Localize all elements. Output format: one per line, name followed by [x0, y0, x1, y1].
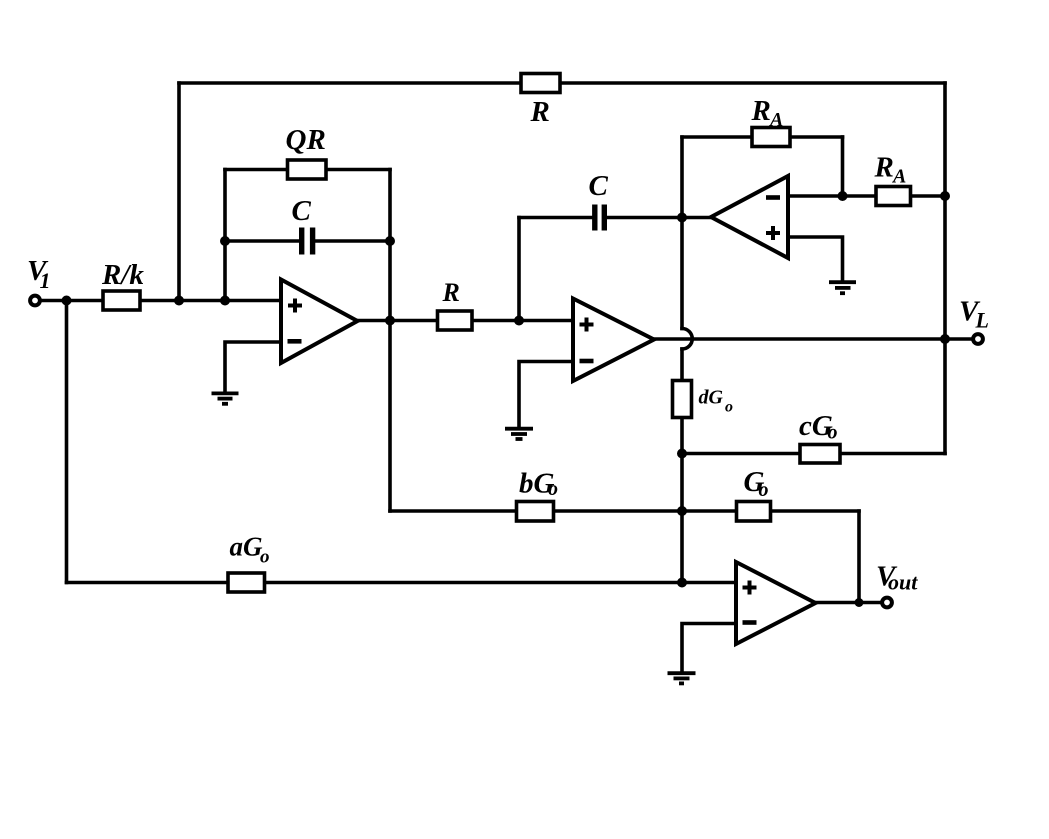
node C2/R junction: [514, 316, 524, 326]
resistor R (top feedback): [521, 74, 560, 93]
wire mid vertical to dGo: [680, 349, 684, 381]
resistor QR: [288, 160, 327, 179]
wire C2 left vertical: [517, 218, 521, 321]
wire U4 inverting input to ground: [682, 624, 736, 672]
svg-text:o: o: [725, 399, 733, 416]
svg-text:out: out: [888, 570, 918, 595]
svg-text:R/k: R/k: [101, 259, 144, 291]
capacitor C1 plates: [302, 228, 313, 255]
label VL: [959, 296, 989, 333]
node bGo junction: [677, 506, 687, 516]
terminal Vout: [882, 598, 892, 608]
op-amp U4: [736, 562, 816, 644]
wire aGo horizontal to U4 + input: [67, 581, 737, 585]
node RA junction: [838, 191, 848, 201]
wire QR horizontal: [225, 168, 390, 172]
wire U1 inverting input to ground: [225, 342, 281, 392]
svg-text:C: C: [589, 170, 609, 202]
svg-text:L: L: [975, 308, 989, 333]
resistor Go: [737, 502, 771, 522]
node C1 left junction: [220, 236, 230, 246]
resistor bGo: [517, 502, 554, 522]
resistor R (mid): [438, 311, 473, 330]
wire VL stub to terminal: [945, 337, 972, 341]
svg-text:dG: dG: [699, 387, 724, 409]
label Go: [744, 466, 769, 501]
svg-text:C: C: [292, 195, 312, 227]
wire top feedback left vertical: [177, 83, 181, 301]
terminal V1: [30, 296, 40, 306]
node aGo junction: [677, 578, 687, 588]
ground G4 (op-amp U4): [668, 673, 696, 683]
op-amp U2: [573, 299, 654, 382]
wire RA1 right vertical: [841, 137, 845, 196]
wire Go right vertical to U4 output: [857, 511, 861, 603]
label RA1: [751, 95, 784, 131]
wire C2 right segment to U3 tip: [607, 216, 711, 220]
label dGo: [699, 387, 734, 416]
wire hop over VL line: [682, 329, 692, 350]
node Vout junction: [855, 598, 864, 607]
wire C2 left segment: [519, 216, 592, 220]
node U1 output junction: [385, 316, 395, 326]
svg-text:R: R: [751, 95, 771, 127]
svg-text:o: o: [828, 422, 838, 444]
resistor aGo: [228, 573, 265, 592]
resistor RA1: [752, 128, 790, 147]
wire C1 right segment: [316, 239, 391, 243]
wire Go horizontal: [682, 509, 859, 513]
svg-text:1: 1: [40, 268, 51, 293]
wire QR loop left vertical: [223, 170, 227, 301]
op-amp U1: [281, 280, 358, 364]
resistor R/k: [103, 291, 140, 310]
label bGo: [519, 467, 558, 500]
resistor RA2: [876, 187, 911, 206]
op-amp U3 (points left): [711, 176, 788, 258]
node QR-loop/input junction: [220, 296, 230, 306]
ground G2 (op-amp U2): [505, 429, 533, 439]
wire mid vertical dGo to aGo junction: [680, 418, 684, 583]
wire right main vertical: [943, 83, 947, 454]
label aGo: [230, 532, 270, 568]
ground G1 (op-amp U1): [212, 393, 239, 403]
terminal VL: [973, 334, 983, 344]
wire cGo horizontal: [682, 452, 945, 456]
node C2/U3-tip junction: [677, 213, 687, 223]
node VL junction: [940, 334, 950, 344]
ground G3 (op-amp U3): [829, 282, 856, 293]
wire U3 inverting input line with RA2: [788, 194, 945, 198]
label RA2: [874, 152, 907, 188]
wire bGo horizontal: [390, 509, 682, 513]
svg-text:R: R: [442, 278, 460, 307]
capacitor C2 plates: [595, 205, 605, 231]
wire U2 inverting input to ground: [519, 362, 573, 428]
wire U4 output: [816, 601, 881, 605]
wire aGo drop vertical from V1 junction: [65, 301, 69, 583]
wire mid vertical upper (RA1 loop down through C2 junction to hop): [680, 137, 684, 329]
svg-text:A: A: [768, 109, 783, 131]
svg-text:A: A: [891, 166, 906, 188]
label V1: [27, 255, 51, 293]
svg-text:R: R: [874, 152, 894, 184]
svg-text:o: o: [260, 547, 270, 568]
resistor dGo (vertical): [673, 381, 692, 418]
resistor cGo: [800, 445, 840, 464]
node cGo junction: [677, 449, 687, 459]
wire top horizontal (R feedback): [179, 81, 945, 85]
svg-text:o: o: [548, 478, 558, 500]
wire U3 + input to ground: [788, 237, 843, 281]
svg-text:aG: aG: [230, 532, 264, 562]
wire main input V1 to op-amp U1: [41, 299, 281, 303]
wire QR loop right vertical down to bGo wire: [388, 170, 392, 512]
wire RA1 feedback horizontal: [682, 135, 843, 139]
label cGo: [799, 410, 838, 444]
node V1 junction: [62, 296, 72, 306]
label Vout: [876, 561, 918, 595]
node C1 right junction: [385, 236, 395, 246]
svg-text:QR: QR: [286, 124, 326, 156]
wire U1 output to U2 + input: [358, 319, 574, 323]
wire C1 left segment: [225, 239, 299, 243]
svg-text:o: o: [759, 479, 769, 501]
node feedback/input junction: [174, 296, 184, 306]
svg-text:R: R: [530, 96, 550, 128]
node RA2/right-rail junction: [940, 191, 950, 201]
wire U2 output / VL line: [654, 337, 945, 341]
